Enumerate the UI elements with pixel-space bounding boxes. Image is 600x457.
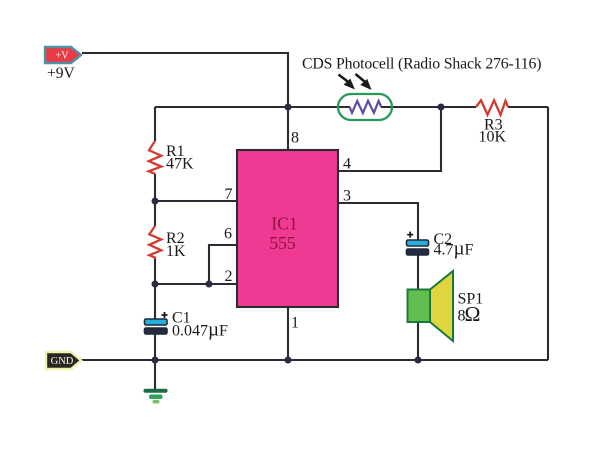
svg-text:555: 555 <box>269 233 296 253</box>
resistor R3 <box>476 100 508 115</box>
svg-text:GND: GND <box>51 356 74 367</box>
svg-text:+V: +V <box>56 51 70 62</box>
GND terminal <box>46 352 81 369</box>
C1 polarity plus <box>162 312 168 318</box>
photocell light arrow 1 <box>339 75 356 90</box>
wire pin 7 <box>155 200 237 202</box>
C2 polarity plus <box>407 232 413 238</box>
junction dot pin7 node <box>152 198 159 205</box>
wire +V rail top <box>82 53 288 107</box>
svg-text:Ω: Ω <box>465 302 481 326</box>
photocell light arrow 2 <box>356 74 372 90</box>
wire pin 6 <box>209 245 237 284</box>
capacitor C1 bottom plate <box>145 328 168 334</box>
ground symbol <box>144 389 168 404</box>
junction dot pin4 node <box>438 104 445 111</box>
svg-text:8: 8 <box>291 130 299 147</box>
wire pin 4 <box>338 107 441 171</box>
junction dot pin6 pin2 node <box>206 281 213 288</box>
junction dot pin8 node <box>285 104 292 111</box>
wire ground stub <box>154 360 156 389</box>
resistor R2 <box>149 226 161 258</box>
junction dot pin1 ground node <box>285 357 292 364</box>
wire top net left segment <box>155 106 350 108</box>
svg-text:1: 1 <box>291 315 299 332</box>
wire left branch R1 to R2 <box>154 174 156 226</box>
svg-text:4.7µF: 4.7µF <box>434 239 474 260</box>
wire C1 to ground rail <box>154 334 156 360</box>
svg-text:4: 4 <box>343 156 351 173</box>
wire pin 8 <box>287 107 289 150</box>
svg-text:0.047µF: 0.047µF <box>172 320 228 341</box>
wire C2 to ground rail <box>417 255 419 360</box>
junction dot C1 ground node <box>152 357 159 364</box>
svg-text:1K: 1K <box>166 243 186 260</box>
junction dot pin2 left node <box>152 281 159 288</box>
svg-text:2: 2 <box>225 268 233 285</box>
photocell body <box>338 94 392 120</box>
wire ground bottom rail <box>81 359 548 361</box>
svg-text:+9V: +9V <box>47 65 75 82</box>
wire top net right segment <box>508 106 548 108</box>
svg-text:IC1: IC1 <box>271 214 297 234</box>
wire pin 2 <box>155 283 237 285</box>
resistor R1 <box>149 141 162 174</box>
wire left branch R2 to C1 <box>154 258 156 319</box>
wire pin 3 to C2 <box>338 203 418 240</box>
wire top net middle segment <box>381 106 476 108</box>
capacitor C2 bottom plate <box>407 249 429 255</box>
speaker SP1 magnet <box>408 290 431 323</box>
svg-text:3: 3 <box>343 188 351 205</box>
capacitor C2 top plate <box>407 240 429 246</box>
photocell resistive element <box>350 101 382 113</box>
svg-text:10K: 10K <box>479 129 507 146</box>
capacitor C1 top plate <box>145 319 168 325</box>
+V terminal <box>45 47 81 63</box>
junction dot speaker ground node <box>415 357 422 364</box>
wire left branch above R1 <box>154 107 156 141</box>
speaker SP1 cone <box>430 271 453 341</box>
wire right vertical <box>547 107 549 360</box>
svg-text:47K: 47K <box>166 156 194 173</box>
svg-text:7: 7 <box>225 186 233 203</box>
wire pin 1 <box>287 307 289 360</box>
op-amp IC1 555 body <box>237 150 338 307</box>
svg-text:CDS Photocell (Radio Shack 276: CDS Photocell (Radio Shack 276-116) <box>302 56 542 73</box>
svg-text:6: 6 <box>224 226 232 243</box>
